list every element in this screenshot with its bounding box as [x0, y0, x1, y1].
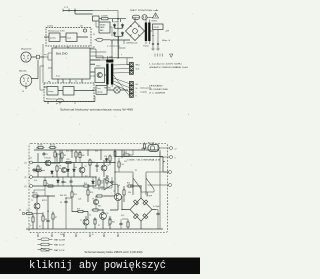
stage A1.2	[66, 33, 77, 42]
inline connector K1	[37, 55, 40, 59]
wire cluster2	[33, 196, 55, 229]
resistor R15	[71, 191, 73, 199]
resistor R28	[47, 185, 55, 187]
svg-text:R14: R14	[84, 183, 87, 185]
junction dot board 13	[95, 176, 96, 177]
svg-text:SIEĆ 220V/50Hz odb.: SIEĆ 220V/50Hz odb.	[130, 9, 160, 12]
transistor T8	[61, 167, 66, 172]
svg-text:T6: T6	[107, 213, 109, 215]
connector X1 pin1	[130, 63, 134, 67]
svg-text:R42: R42	[98, 206, 101, 208]
junction dot board 20	[163, 161, 164, 162]
resistor R5	[32, 216, 34, 224]
svg-text:czujnika: czujnika	[140, 92, 148, 94]
junction dot board 14	[102, 209, 103, 210]
transformer TW-490 top cap	[106, 60, 113, 63]
hatch marks	[155, 54, 163, 57]
junction dot board 12	[87, 185, 88, 186]
diode D4	[121, 32, 124, 37]
terminal 0V	[170, 156, 173, 159]
legend resistor symbol 0.5W	[38, 243, 53, 246]
svg-text:zabezp.: zabezp.	[97, 92, 103, 94]
wire clutter3	[96, 196, 128, 229]
svg-text:R40 120: R40 120	[60, 195, 66, 197]
wire U1 to driver	[90, 60, 106, 75]
svg-text:T2: T2	[31, 200, 33, 202]
resistor R23	[127, 185, 135, 187]
wire power stage	[72, 186, 124, 210]
wire top rail	[34, 149, 158, 151]
junction dot board 18	[114, 171, 115, 172]
svg-text:OSTRZ.: OSTRZ.	[151, 21, 158, 23]
indicator speaker cone	[114, 87, 120, 93]
wire clutter4	[120, 219, 122, 229]
wire rail4	[33, 185, 81, 187]
diode D5	[51, 170, 54, 175]
wire mid lower	[80, 177, 96, 186]
svg-text:47: 47	[108, 225, 110, 227]
junction dot board 5	[100, 149, 101, 150]
resistor R26	[35, 169, 43, 171]
stage A1.1	[49, 33, 60, 42]
junction dot board 8	[36, 195, 37, 196]
capacitor C16	[119, 222, 122, 226]
wire U1 top to transformer	[90, 49, 106, 65]
bridge rectifier BR2	[130, 198, 152, 221]
svg-text:22: 22	[89, 215, 91, 217]
capacitor C2	[32, 168, 35, 172]
svg-text:2 x BYP: 2 x BYP	[146, 196, 153, 198]
indicator cone marks	[115, 88, 119, 92]
wire amp triangle	[100, 181, 118, 187]
capacitor C8	[61, 180, 64, 184]
capacitor C3	[46, 219, 49, 223]
wire transformer top feed	[93, 11, 126, 60]
resistor R22	[109, 218, 111, 226]
resistor R31	[118, 161, 120, 169]
diode D8	[57, 179, 60, 184]
svg-text:GLOSNIKOWE: GLOSNIKOWE	[149, 89, 169, 91]
svg-text:R4: R4	[59, 168, 61, 170]
capacitor C5	[95, 164, 98, 168]
resistor R6	[42, 215, 44, 223]
svg-text:1,5/3,5k: 1,5/3,5k	[47, 26, 53, 28]
svg-text:R35 1,2k: R35 1,2k	[66, 151, 73, 153]
junction dot board 6	[114, 162, 115, 163]
resistor R1	[37, 146, 45, 148]
scan speckles	[3, 6, 193, 251]
resistor R43	[127, 221, 129, 229]
wire IN7	[34, 213, 44, 215]
capacitor C7	[156, 212, 159, 216]
svg-text:Wzmacniacz m.: Wzmacniacz m.	[48, 31, 63, 33]
legend resistor symbol 0.05W	[38, 238, 53, 241]
svg-text:R10: R10	[67, 159, 70, 161]
svg-text:10k: 10k	[74, 167, 77, 169]
svg-text:47: 47	[98, 225, 100, 227]
wire psu link	[96, 21, 112, 36]
resistor R12	[89, 159, 91, 167]
svg-text:wy: wy	[48, 81, 50, 83]
capacitor C1	[42, 152, 45, 156]
svg-text:C4: C4	[47, 211, 49, 213]
svg-text:C6: C6	[60, 202, 62, 204]
transistor T3	[79, 167, 85, 173]
terminal IN7	[22, 212, 25, 215]
terminal IN2	[30, 176, 33, 179]
resistor R2	[49, 146, 57, 148]
plug P1	[142, 15, 147, 20]
block Q-driver	[95, 68, 105, 83]
svg-text:C11: C11	[29, 158, 32, 160]
svg-text:R12: R12	[92, 162, 95, 164]
bridge rectifier BR1	[126, 22, 145, 41]
resistor R25	[44, 179, 46, 187]
fuse B1 lamp	[150, 146, 154, 150]
resistor R4	[56, 165, 58, 173]
ground triangle small	[170, 54, 173, 57]
resistor R45	[144, 143, 146, 151]
junction dot board 11	[71, 185, 72, 186]
svg-text:T3: T3	[85, 166, 87, 168]
svg-text:0,5: 0,5	[85, 176, 87, 178]
svg-text:GL.: GL.	[136, 84, 139, 86]
svg-text:przedw.: przedw.	[50, 37, 56, 40]
junction dot board 10	[65, 197, 66, 198]
transistor T7	[83, 219, 89, 225]
wire rail2	[33, 162, 116, 164]
transformer TS-60 leads	[146, 20, 149, 45]
svg-text:R32: R32	[124, 152, 127, 154]
transformer TW-490 core bar2	[111, 64, 113, 85]
svg-text:B1 0,5A: B1 0,5A	[148, 142, 155, 145]
wire long bus y58	[96, 40, 133, 65]
junction dot board 15	[117, 185, 118, 186]
socket J1 pins	[23, 55, 29, 61]
wire bottom bus top-schematic	[44, 102, 95, 105]
svg-text:L zasilanie 220V 50Hz: L zasilanie 220V 50Hz	[149, 64, 182, 66]
svg-text:Schemat ideowy bloku ZMOS: Schemat ideowy bloku ZMOS wzm.II (W-490)	[85, 251, 143, 254]
junction dot board 17	[121, 209, 122, 210]
resistor R19	[77, 210, 85, 212]
svg-text:4,7: 4,7	[39, 226, 41, 228]
svg-text:3 szt.: 3 szt.	[56, 75, 61, 78]
resistor R21	[94, 218, 96, 226]
svg-text:Czuj.: Czuj.	[97, 88, 101, 90]
connector X2 pin1	[130, 82, 134, 86]
amp triangle stage	[104, 179, 113, 191]
svg-text:WAT 0,05W: WAT 0,05W	[54, 238, 65, 241]
resistor R10	[65, 161, 73, 163]
svg-text:1,2k: 1,2k	[78, 199, 81, 201]
wire filter to bridge	[99, 19, 126, 22]
wire clutter1	[36, 150, 133, 190]
block regulator (zasilacz)	[99, 22, 110, 33]
wire sensor to indicator	[107, 89, 128, 91]
pin circles bottom	[37, 235, 119, 237]
svg-text:C15: C15	[124, 161, 127, 163]
wire board bottom pins	[38, 233, 118, 236]
wire top bus ticks	[63, 9, 75, 13]
svg-text:GNIAZDO WBUDOWANE 2x40: GNIAZDO WBUDOWANE 2x40	[149, 66, 188, 69]
svg-text:P1: P1	[135, 170, 137, 172]
transistor T4	[101, 165, 107, 171]
wire cluster3	[62, 150, 110, 177]
terminal sec 1	[152, 48, 154, 50]
svg-text:ZESTAWY: ZESTAWY	[149, 85, 164, 88]
svg-text:R36: R36	[95, 151, 98, 153]
resistor R9	[61, 152, 63, 160]
svg-text:T11: T11	[106, 176, 109, 178]
wire 0V	[160, 152, 170, 158]
component oval czujnik	[56, 99, 63, 102]
wire extra top2	[90, 46, 96, 90]
resistor R-bus oval	[95, 38, 111, 41]
resistor R33	[114, 150, 116, 158]
wire feedback loop	[40, 66, 95, 105]
svg-text:W1: W1	[62, 31, 65, 33]
svg-text:2 x 40W/8: 2 x 40W/8	[149, 93, 165, 95]
svg-text:Schemat blokowy wzmacniacza: Schemat blokowy wzmacniacza mocy W-490	[60, 107, 134, 111]
junction dot board 4	[87, 149, 88, 150]
capacitor C10	[110, 180, 113, 184]
svg-text:R19: R19	[77, 209, 80, 211]
connector X2 pin2	[130, 86, 134, 90]
switch S1 contact 2	[146, 175, 154, 196]
svg-text:1: 1	[136, 92, 137, 94]
wire BR2	[122, 186, 156, 229]
resistor R27	[79, 151, 81, 159]
connector pin bumps	[152, 43, 159, 45]
svg-text:8: 8	[136, 96, 137, 98]
svg-text:2 x 50μF: 2 x 50μF	[153, 206, 160, 208]
fuse F1	[133, 15, 140, 19]
connector X2 pin4	[130, 94, 134, 98]
svg-text:Mikrofon: Mikrofon	[19, 71, 27, 73]
junction dot board 9	[47, 195, 48, 196]
block A1 Wzmacniacz wstepny (dashed)	[46, 28, 91, 47]
transformer TS-60 core bar1	[145, 23, 147, 42]
socket J2 Mikrofon	[20, 75, 32, 87]
resistor R17	[96, 195, 104, 197]
resistor R13	[109, 155, 111, 163]
svg-text:k.mocy: k.mocy	[48, 91, 54, 93]
resistor R3	[37, 165, 39, 173]
svg-text:regul.: regul.	[67, 37, 72, 40]
svg-text:Magnetofon: Magnetofon	[21, 48, 32, 51]
svg-text:400μs→H: 400μs→H	[162, 40, 171, 42]
svg-text:o o: o o	[152, 35, 154, 37]
svg-text:R11: R11	[78, 154, 81, 156]
diode D1	[113, 24, 116, 29]
svg-text:560: 560	[82, 155, 85, 157]
resistor R20	[92, 209, 100, 211]
svg-text:5a 5d: 5a 5d	[60, 234, 64, 236]
transformer TW-490 core bar1	[106, 64, 108, 85]
svg-text:0,15: 0,15	[121, 215, 124, 217]
junction dot board 19	[157, 149, 158, 150]
wire secondary down	[151, 30, 159, 48]
capacitor C9	[69, 180, 72, 184]
fuse B1 wires	[142, 148, 170, 150]
wire mid vertical V1	[60, 150, 122, 196]
warning triangle mark	[155, 15, 157, 17]
diode D2	[121, 24, 124, 29]
svg-text:WAT 2,0 W: WAT 2,0 W	[54, 249, 64, 252]
svg-text:T5: T5	[113, 191, 115, 193]
wire vertical trunk left	[42, 44, 44, 83]
resistor R30	[106, 177, 108, 185]
transistor T2	[34, 203, 40, 209]
block filter F	[93, 16, 100, 21]
wire cluster1	[38, 153, 60, 177]
terminal +U	[170, 147, 173, 150]
svg-text:T7: T7	[80, 220, 82, 222]
wire c6	[66, 198, 72, 229]
svg-text:1k: 1k	[30, 225, 32, 227]
svg-text:T4: T4	[107, 165, 109, 167]
wire switch links	[115, 172, 169, 196]
junction dot board 16	[140, 185, 141, 186]
svg-text:1 2 3: 1 2 3	[64, 7, 68, 9]
svg-text:0-8: 0-8	[109, 57, 112, 59]
svg-text:4,7k: 4,7k	[34, 180, 37, 182]
diode D6	[67, 168, 70, 173]
connector X2 pin3	[130, 90, 134, 94]
board outline (dashed)	[29, 144, 168, 233]
wire extra top1	[44, 53, 95, 76]
resistor R-line	[100, 18, 110, 20]
wire diode grid	[110, 28, 130, 40]
svg-text:T5: T5	[75, 81, 77, 83]
wire rail3	[33, 176, 97, 178]
junction dot board 7	[114, 149, 115, 150]
junction dot board 2	[59, 162, 60, 163]
svg-text:8,2k: 8,2k	[57, 154, 60, 156]
svg-text:20: 20	[22, 91, 24, 93]
block sensor	[96, 86, 107, 95]
svg-text:T6/T7: T6/T7	[96, 66, 100, 68]
transformer TW-490 leads	[107, 56, 112, 87]
indicator lamp A1	[83, 29, 86, 32]
svg-text:2xBYP401-100: 2xBYP401-100	[126, 43, 137, 45]
resistor R18	[123, 189, 125, 197]
svg-text:0: 0	[175, 158, 176, 160]
wire A1 to U1	[56, 46, 68, 48]
transistor T10	[93, 199, 98, 204]
svg-text:1,5k: 1,5k	[121, 164, 124, 166]
svg-text:gn: gn	[56, 103, 58, 105]
terminal LS1	[169, 171, 172, 174]
wire A2 internal	[44, 79, 94, 91]
wire ZMOS left stubs	[48, 57, 52, 68]
legend resistor symbol 2W	[38, 248, 53, 251]
svg-text:BC211: BC211	[42, 200, 47, 202]
svg-text:TS-60: TS-60	[143, 46, 149, 48]
socket J1 Magnetofon	[21, 52, 31, 62]
svg-text:WAT 0,5 W: WAT 0,5 W	[54, 244, 64, 247]
wire transformer secondary fan	[113, 65, 129, 96]
svg-text:4 x BYP: 4 x BYP	[113, 21, 120, 23]
svg-text:WEJ.: WEJ.	[136, 65, 141, 67]
svg-text:R1 47k: R1 47k	[38, 144, 43, 146]
terminal IN1	[30, 161, 33, 164]
resistor R44	[25, 213, 34, 215]
svg-text:R7: R7	[55, 217, 57, 219]
svg-text:2,2Ω/5W: 2,2Ω/5W	[101, 16, 108, 18]
watermark bar	[0, 258, 200, 275]
svg-text:R16: R16	[90, 192, 93, 194]
diode D7	[73, 168, 76, 173]
transistor T6	[100, 213, 107, 220]
block A2 Wzmacniacz mocy (dashed)	[44, 83, 94, 102]
svg-text:PROST.: PROST.	[154, 27, 160, 29]
fuse holder B1	[148, 145, 159, 152]
transformer TS-60 core bar2	[148, 23, 150, 42]
plug P1 prongs	[143, 16, 153, 18]
wire C7	[156, 210, 158, 230]
block recifier conn	[153, 24, 164, 30]
svg-text:T1 BC211: T1 BC211	[44, 158, 51, 160]
socket J2 pins	[23, 78, 29, 85]
svg-text:2k: 2k	[93, 34, 95, 36]
junction dot board 3	[71, 149, 72, 150]
svg-text:R15: R15	[74, 194, 77, 196]
svg-text:kliknij aby powiększyć: kliknij aby powiększyć	[29, 260, 166, 272]
svg-text:C12: C12	[36, 148, 39, 150]
diode D9	[92, 180, 95, 185]
svg-text:5c: 5c	[92, 234, 94, 236]
junction dot 1	[75, 10, 76, 11]
wire arrows down-bus	[112, 40, 124, 44]
wire A1 internal	[44, 36, 88, 38]
svg-text:TW-490: TW-490	[104, 88, 112, 90]
transistor driver	[97, 72, 102, 77]
block U1 Blok ZMOS	[52, 48, 90, 79]
wire power stage 2	[72, 210, 118, 229]
wire right rail	[158, 144, 160, 230]
svg-text:50k: 50k	[80, 26, 83, 28]
resistor R32	[123, 154, 131, 156]
diode D11	[105, 158, 108, 163]
terminal IN3	[30, 185, 33, 188]
svg-text:220: 220	[101, 183, 104, 185]
wire speaker line	[115, 157, 169, 173]
stage A2.2	[63, 87, 74, 96]
svg-text:ODB. GLOSNIKA 4 8: ODB. GLOSNIKA 4 8	[127, 159, 160, 162]
wire top bus	[63, 11, 93, 15]
svg-text:120: 120	[26, 210, 29, 212]
resistor R8	[32, 195, 40, 197]
diode D3	[113, 32, 116, 37]
resistor R14	[83, 185, 91, 187]
resistor R16	[87, 189, 89, 197]
resistor R7	[52, 213, 54, 221]
stage A2.1	[47, 87, 58, 96]
terminal sec 2	[157, 48, 159, 50]
wire clutter2	[34, 188, 112, 196]
junction dot 2	[118, 18, 119, 19]
warning triangle	[153, 13, 159, 18]
svg-text:Blok ZMO: Blok ZMO	[56, 52, 68, 56]
svg-text:T8: T8	[59, 166, 61, 168]
fuse F1 inner	[133, 16, 140, 18]
svg-text:C1: C1	[46, 154, 48, 156]
svg-text:R22: R22	[112, 222, 115, 224]
wire J1 to preamp	[26, 57, 44, 89]
switch S1 contact 1	[133, 175, 141, 196]
svg-text:+: +	[113, 39, 114, 41]
